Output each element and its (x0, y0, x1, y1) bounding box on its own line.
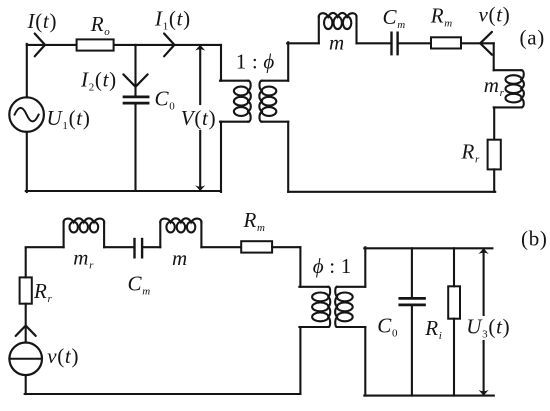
arrow U3(t) shaft upper (483, 250, 485, 315)
svg-text:C0: C0 (377, 314, 398, 340)
wire: Rm to corner (461, 42, 494, 44)
wire: (b) top wire seg5 (272, 246, 300, 248)
svg-text:mr: mr (73, 245, 94, 271)
inductor m (b) left riser (159, 222, 161, 247)
wire: (a) top wire to inductor m (287, 42, 319, 44)
arrow U3(t) head up (479, 248, 489, 254)
wire: transformer T1 secondary stub top (262, 80, 289, 82)
source U1 circle (9, 97, 44, 132)
svg-text:m: m (172, 246, 188, 270)
arrow V(t) shaft upper (199, 47, 201, 105)
arrow V(t) shaft lower (199, 131, 201, 190)
inductor mr coil (a) (505, 70, 523, 107)
wire: (a) top-left wire from source to transformer (27, 44, 221, 46)
arrow V(t) head down (195, 185, 205, 191)
transformer T1 secondary coil (259, 81, 276, 122)
wire: (b) transformer T2 primary riser top (299, 247, 301, 287)
arrow I1(t) head (164, 34, 174, 57)
inductor mr (b) right riser (103, 222, 105, 247)
svg-text:I(t): I(t) (27, 9, 58, 33)
transformer T1 primary coil (234, 81, 251, 122)
wire: transformer T1 secondary riser bottom (287, 122, 289, 192)
source v(t) bar (9, 358, 42, 360)
capacitor Cm plates (390, 33, 392, 55)
wire: C0 branch upper (134, 45, 136, 96)
resistor Rm box (b) (241, 241, 272, 252)
wire: right corner down to mr (493, 43, 495, 70)
wire: (b) top wire seg4 (201, 246, 241, 248)
source U1 sine (15, 108, 39, 122)
wire: (a) bottom-left wire (26, 190, 221, 192)
capacitor C0 plates (124, 96, 148, 99)
inductor m coil (319, 13, 357, 29)
svg-text:Ro: Ro (90, 12, 111, 38)
wire: transformer T1 primary riser top (220, 45, 222, 81)
svg-text:Rm: Rm (243, 208, 266, 234)
svg-text:U1(t): U1(t) (47, 106, 91, 132)
wire: T2 primary stub bottom (299, 326, 328, 328)
resistor Ro box (77, 39, 114, 50)
svg-text:Rm: Rm (430, 3, 453, 29)
svg-text:Cm: Cm (128, 272, 151, 298)
wire: (b) left riser top (25, 248, 27, 277)
wire: Rr to bottom (493, 169, 495, 191)
wire: transformer T1 secondary stub bottom (262, 121, 289, 123)
wire: (b) top wire seg3 (143, 246, 160, 248)
wire: T2 secondary riser top (364, 247, 366, 286)
wire: T2 secondary riser bottom (364, 327, 366, 396)
arrow v(t) head (b) (16, 326, 36, 336)
svg-text:I2(t): I2(t) (80, 68, 117, 94)
wire: inductor m left riser (318, 16, 320, 43)
resistor Rr box (a) (488, 140, 501, 170)
inductor mr coil (b) (64, 218, 105, 232)
wire: (b) bottom-left wire (25, 393, 301, 395)
svg-text:(b): (b) (521, 227, 548, 251)
svg-text:1 : ϕ: 1 : ϕ (236, 50, 275, 74)
svg-text:v(t): v(t) (47, 344, 79, 368)
wire: mr stub bottom (494, 106, 522, 108)
svg-text:U3(t): U3(t) (466, 315, 510, 341)
arrow v(t) head (480, 32, 492, 55)
wire: (b) Rr to source (25, 304, 27, 343)
wire: mr to Rr (493, 107, 495, 139)
wire: (b) bottom-right wire (364, 395, 494, 397)
wire: (a) left wire source bottom (26, 132, 28, 192)
svg-text:(a): (a) (520, 26, 545, 50)
svg-text:C0: C0 (155, 86, 176, 112)
wire: C0 branch upper (b) (411, 248, 413, 297)
transformer T2 secondary coil (335, 287, 353, 327)
wire: (a) bottom-right wire (288, 191, 495, 193)
arrow V(t) head up (195, 45, 205, 51)
svg-text:ϕ : 1: ϕ : 1 (313, 254, 352, 278)
transformer T2 primary coil (312, 287, 330, 327)
svg-text:mr: mr (484, 73, 505, 99)
resistor Ri box (b) (448, 286, 460, 318)
wire: Cm to Rm (399, 42, 431, 44)
wire: T2 secondary stub top (337, 286, 365, 288)
source v(t) circle (9, 343, 42, 376)
inductor mr (b) left riser (63, 222, 65, 247)
arrow I(t) head (35, 34, 45, 57)
resistor Rm box (431, 37, 461, 48)
arrow U3(t) shaft lower (483, 341, 485, 394)
arrow I2 head (123, 74, 147, 86)
wire: C0 branch lower (134, 104, 136, 191)
wire: (b) source to bottom (25, 375, 27, 394)
wire: transformer T1 primary riser bottom (220, 122, 222, 192)
wire: transformer T1 primary stub bottom (220, 121, 248, 123)
svg-text:v(t): v(t) (479, 3, 511, 27)
inductor m (b) right riser (200, 222, 202, 247)
arrow U3(t) head down (479, 390, 489, 396)
wire: mr stub top (494, 69, 522, 71)
wire: C0 branch lower (b) (411, 306, 413, 395)
svg-text:Ri: Ri (424, 316, 442, 342)
capacitor C0 plates (b) (400, 297, 425, 300)
svg-text:Cm: Cm (383, 5, 406, 31)
wire: Ri branch lower (b) (453, 319, 455, 396)
wire: transformer T1 primary stub top (220, 80, 248, 82)
svg-text:Rr: Rr (33, 279, 53, 305)
svg-text:Rr: Rr (461, 139, 481, 165)
wire: transformer T1 secondary riser top (287, 42, 289, 80)
wire: inductor m right riser (355, 16, 357, 43)
svg-text:m: m (329, 30, 345, 54)
wire: (b) top wire seg2 (104, 246, 133, 248)
wire: (a) left wire source top (26, 44, 28, 98)
wire: T2 secondary stub bottom (337, 326, 365, 328)
wire: (b) top-right wire (364, 247, 492, 249)
resistor Rr box (b) (20, 277, 32, 303)
inductor m coil (b) (160, 218, 201, 232)
wire: (b) top wire seg1 (26, 246, 64, 248)
wire: m to Cm (357, 42, 391, 44)
wire: Ri branch upper (b) (453, 248, 455, 286)
svg-text:I1(t): I1(t) (154, 6, 191, 32)
wire: T2 primary riser bottom (299, 327, 301, 394)
wire: T2 primary stub top (299, 286, 328, 288)
svg-text:V(t): V(t) (181, 106, 216, 130)
capacitor Cm plates (b) (133, 239, 135, 257)
